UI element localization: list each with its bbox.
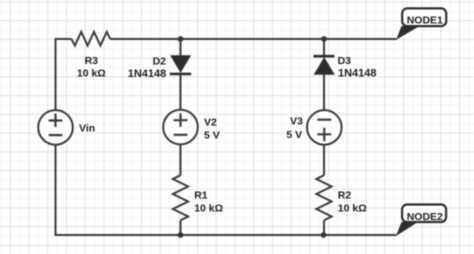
wire: V3 down to R2 bbox=[323, 145, 325, 176]
node NODE1 flag tail bbox=[396, 26, 418, 40]
svg-text:V2: V2 bbox=[204, 116, 217, 128]
V2 minus symbol bbox=[174, 134, 188, 136]
svg-text:10 kΩ: 10 kΩ bbox=[338, 203, 367, 215]
wire: D2 cathode down to V2 bbox=[180, 75, 182, 111]
voltage source V3 (reversed polarity) bbox=[307, 110, 342, 145]
svg-text:R1: R1 bbox=[194, 190, 208, 202]
junction dot at D3 cathode / top rail bbox=[321, 36, 327, 42]
resistor R2 bbox=[316, 175, 331, 220]
wire: top rail left segment to R3 bbox=[55, 38, 72, 40]
junction dot at R1 bottom / bottom rail bbox=[178, 232, 184, 238]
resistor R1 bbox=[173, 175, 188, 220]
svg-text:V3: V3 bbox=[290, 116, 303, 128]
svg-text:NODE2: NODE2 bbox=[407, 211, 443, 223]
svg-text:5 V: 5 V bbox=[204, 130, 220, 142]
Vin minus symbol bbox=[49, 134, 63, 136]
svg-text:D2: D2 bbox=[153, 55, 167, 67]
svg-text:NODE1: NODE1 bbox=[407, 15, 443, 27]
junction dot at R2 bottom / bottom rail bbox=[321, 232, 327, 238]
V3 plus symbol (bottom) bbox=[317, 128, 331, 142]
diode D2 (pointing down) bbox=[171, 56, 190, 72]
svg-text:10 kΩ: 10 kΩ bbox=[77, 68, 106, 80]
svg-text:5 V: 5 V bbox=[286, 129, 302, 141]
wire: R2 to bottom rail bbox=[323, 220, 325, 235]
junction dot at D2 anode / top rail bbox=[178, 36, 184, 42]
wire: Vin bottom lead down to bottom rail bbox=[55, 145, 57, 236]
diode D3 cathode bar bbox=[314, 55, 335, 58]
svg-text:Vin: Vin bbox=[79, 122, 95, 134]
wire: D3 anode down to V3 bbox=[323, 74, 325, 110]
node NODE2 flag box bbox=[402, 205, 446, 223]
wire: bottom rail bbox=[56, 234, 397, 236]
V3 minus symbol (top) bbox=[317, 119, 331, 121]
V2 plus symbol bbox=[174, 113, 188, 127]
svg-text:R3: R3 bbox=[85, 55, 99, 67]
wire: R1 to bottom rail bbox=[180, 220, 182, 235]
diode D2 cathode bar bbox=[170, 73, 191, 76]
wire: D2 anode stub bbox=[180, 39, 182, 57]
resistor R3 bbox=[71, 32, 110, 46]
svg-text:D3: D3 bbox=[338, 55, 352, 67]
svg-text:R2: R2 bbox=[338, 190, 352, 202]
wire: V2 down to R1 bbox=[180, 144, 182, 175]
voltage source V2 bbox=[163, 110, 198, 145]
wire: Vin top lead up to top rail (left corner) bbox=[55, 39, 57, 110]
svg-text:1N4148: 1N4148 bbox=[338, 67, 377, 79]
wire: top rail from R3 to NODE1 bbox=[110, 38, 396, 40]
svg-text:10 kΩ: 10 kΩ bbox=[194, 203, 223, 215]
diode D3 (pointing up) bbox=[315, 58, 334, 74]
svg-text:1N4148: 1N4148 bbox=[128, 68, 167, 80]
node NODE1 flag box bbox=[402, 8, 446, 26]
node NODE2 flag tail bbox=[396, 222, 418, 236]
Vin plus symbol bbox=[49, 114, 63, 128]
voltage source Vin bbox=[38, 110, 73, 145]
wire: D3 cathode stub bbox=[323, 39, 325, 56]
